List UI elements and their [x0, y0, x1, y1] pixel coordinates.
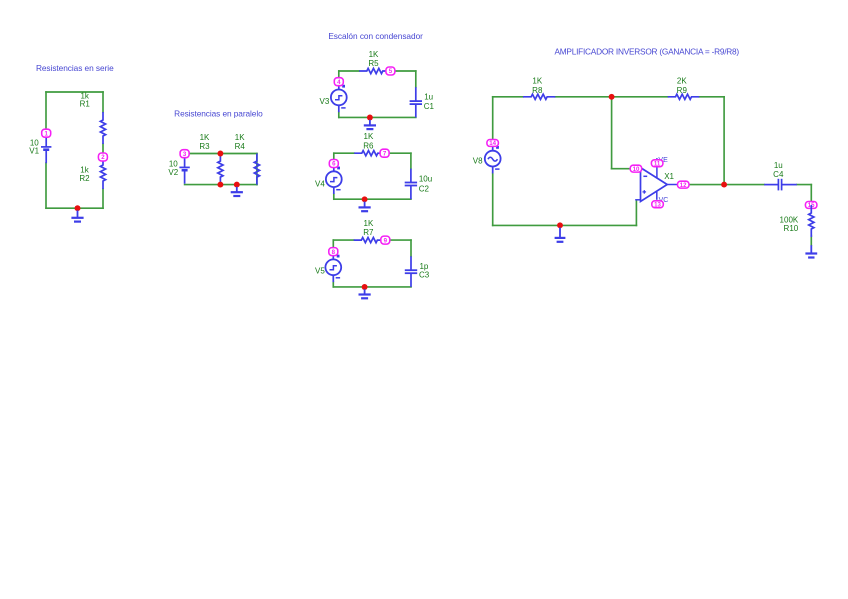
capacitor 1p C3 — [405, 256, 417, 287]
wire A top right — [699, 96, 724, 98]
resistor R3 — [218, 154, 223, 185]
ground A — [555, 228, 566, 242]
ground C1 — [71, 210, 83, 221]
wire E1 top right — [396, 70, 416, 72]
node 1 — [42, 129, 51, 137]
svg-text:10: 10 — [633, 166, 640, 173]
node 12 — [678, 181, 690, 189]
svg-text:2K: 2K — [677, 76, 687, 85]
wire C1 left lower — [45, 163, 47, 208]
svg-text:R8: R8 — [532, 86, 543, 95]
wire E2 top left — [334, 152, 354, 154]
op-amp X1 output stub — [667, 184, 677, 186]
svg-text:11: 11 — [654, 160, 661, 167]
svg-text:13: 13 — [654, 201, 661, 208]
svg-text:C1: C1 — [424, 102, 435, 111]
resistor R8 — [523, 94, 555, 99]
wire A bottom — [493, 224, 637, 226]
junction dot E2 ground — [362, 196, 368, 202]
wire A top left — [493, 96, 523, 98]
voltage source V2 — [179, 154, 189, 184]
wire A feedback right — [723, 97, 725, 185]
op-amp X1 VC pin — [656, 192, 658, 200]
svg-text:R7: R7 — [363, 228, 374, 237]
svg-text:R2: R2 — [79, 174, 90, 183]
svg-text:14: 14 — [489, 140, 496, 147]
svg-text:5: 5 — [389, 68, 393, 75]
wire C1 right lower — [102, 189, 104, 208]
node 7 — [380, 149, 389, 157]
wire E2 right upper — [410, 153, 412, 168]
node 15 — [805, 202, 817, 210]
wire C1 bottom — [46, 207, 103, 209]
svg-text:R6: R6 — [363, 141, 374, 150]
wire E3 left upper — [332, 240, 334, 248]
svg-text:X1: X1 — [664, 172, 674, 181]
wire A R10 bottom — [810, 236, 812, 246]
wire C1 right mid — [102, 144, 104, 153]
wire C2 top — [185, 153, 257, 155]
wire A output — [690, 184, 765, 186]
junction dot R3 top — [217, 151, 223, 157]
wire E2 left upper — [333, 153, 335, 160]
junction dot inverting node — [609, 94, 615, 100]
wire A plus input vertical — [635, 200, 637, 225]
junction dot C1 ground — [75, 205, 81, 211]
wire A left lower — [492, 173, 494, 225]
svg-text:1K: 1K — [532, 77, 542, 86]
resistor R1 — [100, 112, 105, 144]
svg-text:R5: R5 — [368, 59, 379, 68]
junction dot R3 bottom — [217, 182, 223, 188]
resistor R2 — [100, 157, 105, 189]
junction dot E3 ground — [362, 284, 368, 290]
node 9 — [381, 236, 390, 244]
svg-text:1u: 1u — [774, 161, 783, 170]
op-amp X1 plus input marker — [643, 190, 647, 194]
node 4 — [334, 78, 343, 86]
svg-text:100K: 100K — [780, 215, 799, 224]
wire C1 right upper — [102, 92, 104, 112]
wire E1 top left — [339, 70, 359, 72]
svg-text:V1: V1 — [29, 147, 39, 156]
op-amp X1 VE pin — [656, 158, 658, 178]
svg-text:C4: C4 — [773, 170, 784, 179]
junction dot C2 ground — [234, 182, 240, 188]
wire A out down — [810, 185, 812, 202]
svg-text:1: 1 — [45, 130, 49, 137]
wire E1 left lower — [338, 112, 340, 117]
svg-text:C2: C2 — [419, 184, 430, 193]
svg-text:Escalón con condensador: Escalón con condensador — [328, 31, 423, 41]
wire C1 left upper — [45, 92, 47, 130]
svg-text:12: 12 — [680, 182, 687, 189]
resistor R4 — [254, 154, 259, 185]
svg-text:Resistencias en serie: Resistencias en serie — [36, 63, 114, 73]
ground E1 — [364, 120, 376, 129]
junction dot E1 ground — [367, 115, 373, 121]
svg-text:V3: V3 — [320, 97, 330, 106]
svg-text:1K: 1K — [364, 219, 374, 228]
resistor R10 — [809, 205, 814, 237]
node 3 — [180, 150, 189, 158]
svg-text:1K: 1K — [235, 133, 245, 142]
node 13 — [652, 201, 664, 209]
svg-text:1K: 1K — [369, 50, 379, 59]
node 5 — [386, 67, 395, 75]
step source V5 — [325, 252, 341, 283]
node 8 — [329, 248, 338, 256]
ground E2 — [359, 202, 371, 212]
wire C1 top — [46, 91, 103, 93]
sine source V8 — [485, 143, 501, 174]
resistor R7 — [354, 238, 385, 243]
svg-text:10u: 10u — [419, 174, 432, 183]
wire E2 bottom — [334, 198, 411, 200]
junction dot A ground — [557, 222, 563, 228]
capacitor 1u C1 — [410, 87, 422, 117]
resistor R9 — [668, 94, 700, 99]
wire E3 left lower — [332, 282, 334, 287]
svg-text:1u: 1u — [424, 92, 433, 101]
wire E3 top right — [390, 239, 411, 241]
wire E1 left upper — [338, 71, 340, 78]
svg-text:R10: R10 — [784, 224, 799, 233]
ground C2 — [231, 187, 243, 196]
capacitor 1u C4 — [764, 179, 797, 191]
svg-text:R1: R1 — [80, 100, 91, 109]
svg-text:C3: C3 — [419, 270, 430, 279]
wire A inv horizontal — [612, 168, 631, 170]
wire A left upper — [492, 97, 494, 139]
wire E2 top right — [391, 152, 411, 154]
wire E3 bottom — [333, 286, 411, 288]
wire A inv vertical — [611, 97, 613, 169]
wire E1 bottom — [339, 116, 416, 118]
op-amp X1 minus input marker — [643, 175, 647, 177]
voltage source V1 — [41, 133, 51, 163]
svg-text:R3: R3 — [199, 142, 210, 151]
wire E3 right upper — [410, 240, 412, 256]
svg-text:AMPLIFICADOR INVERSOR (GANANCI: AMPLIFICADOR INVERSOR (GANANCIA = -R9/R8… — [554, 46, 739, 56]
svg-text:V2: V2 — [168, 168, 178, 177]
svg-text:R9: R9 — [677, 86, 688, 95]
svg-text:R4: R4 — [235, 142, 246, 151]
wire C2 right — [256, 154, 258, 185]
wire A out right — [797, 184, 812, 186]
node 10 — [630, 165, 642, 173]
node 6 — [329, 160, 338, 168]
ground R10 — [805, 245, 817, 257]
svg-text:1K: 1K — [364, 132, 374, 141]
wire C2 bottom — [185, 184, 257, 186]
step source V4 — [326, 164, 342, 195]
svg-text:2: 2 — [101, 154, 105, 161]
resistor R5 — [359, 68, 390, 73]
node 2 — [98, 153, 107, 161]
node 14 — [487, 140, 499, 148]
junction dot output feedback — [721, 182, 727, 188]
svg-text:V8: V8 — [473, 156, 483, 165]
op-amp X1 plus input stub — [635, 199, 640, 201]
wire E3 top left — [333, 239, 353, 241]
wire E2 left lower — [333, 194, 335, 199]
op-amp X1 triangle — [641, 168, 668, 202]
resistor R6 — [354, 151, 385, 156]
wire E1 right upper — [415, 71, 417, 87]
svg-text:1K: 1K — [200, 133, 210, 142]
svg-text:V4: V4 — [315, 179, 325, 188]
capacitor 10u C2 — [405, 169, 417, 200]
ground E3 — [359, 289, 371, 298]
wire A top mid — [555, 96, 667, 98]
svg-text:Resistencias en paralelo: Resistencias en paralelo — [174, 108, 263, 118]
step source V3 — [331, 82, 347, 113]
svg-text:V5: V5 — [315, 267, 325, 276]
node 11 — [651, 160, 663, 168]
